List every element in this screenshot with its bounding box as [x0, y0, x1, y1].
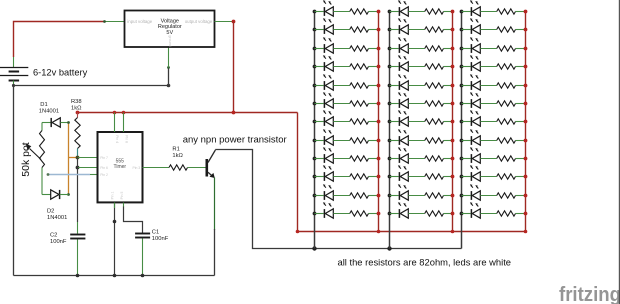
svg-text:C2: C2: [50, 232, 57, 238]
LED8 (col 1 row 8): [313, 129, 334, 145]
svg-text:100nF: 100nF: [50, 239, 67, 245]
svg-text:6-12v battery: 6-12v battery: [33, 68, 88, 78]
svg-text:all the resistors are 82ohm, l: all the resistors are 82ohm, leds are wh…: [338, 256, 512, 267]
resistor 82ohm (col 2 row 2): [408, 27, 454, 32]
wire pot wiper to 555 pin 2 (blue): [47, 173, 98, 176]
resistor 82ohm (col 3 row 2): [480, 27, 527, 32]
svg-text:50k pot: 50k pot: [20, 142, 32, 177]
wire 555 pin 5 to C1: [124, 203, 143, 234]
wire to 555 pin 6: [78, 167, 99, 169]
wire LED cathode bus column 1 (black): [314, 12, 316, 249]
wire orange to pin7 node: [69, 157, 78, 159]
svg-text:Pin 4: Pin 4: [115, 135, 119, 143]
wire regulator output down (red): [233, 22, 235, 113]
resistor 82ohm (col 3 row 1): [480, 9, 527, 14]
resistor 82ohm (col 2 row 11): [408, 193, 454, 198]
resistor 82ohm (col 3 row 8): [480, 138, 527, 143]
resistor R38 1k (vertical): [75, 113, 80, 158]
svg-text:Pin 1: Pin 1: [111, 192, 115, 200]
LED2 (col 1 row 2): [313, 18, 334, 34]
wire pin7-pin6-C2 vertical: [77, 158, 79, 223]
voltage regulator U2 input pin: [105, 21, 125, 23]
LED20 (col 2 row 8): [388, 129, 409, 145]
LED33 (col 3 row 9): [460, 147, 481, 163]
LED27 (col 3 row 3): [460, 37, 481, 53]
svg-text:Pin 8: Pin 8: [124, 135, 128, 143]
resistor 82ohm (col 1 row 7): [333, 119, 380, 124]
resistor 82ohm (col 2 row 7): [408, 119, 454, 124]
node regulator output junction: [232, 20, 236, 24]
right edge border: [618, 0, 620, 304]
svg-text:Pin 3: Pin 3: [132, 166, 140, 170]
555 pin labels (gray): [100, 135, 140, 199]
LED12 (col 1 row 12): [313, 202, 334, 218]
node red bus 2 bottom junction: [451, 230, 455, 234]
resistor 82ohm (col 1 row 8): [333, 138, 380, 143]
wire anode bus column 2 (red): [452, 12, 454, 232]
voltage regulator U2 output pin: [215, 21, 234, 23]
resistor 82ohm (col 1 row 9): [333, 156, 380, 161]
resistor 82ohm (col 3 row 3): [480, 46, 527, 51]
label C1 100nF: [152, 229, 169, 242]
wire anode bus column 3 (red): [525, 12, 527, 232]
LED9 (col 1 row 9): [313, 147, 334, 163]
label D1 1N4001: [39, 102, 59, 115]
resistor 82ohm (col 2 row 8): [408, 138, 454, 143]
wire 555 pin 4 to +5V rail: [114, 113, 116, 133]
svg-text:fritzing: fritzing: [559, 284, 620, 304]
LED36 (col 3 row 12): [460, 202, 481, 218]
potentiometer RV1 50k: [26, 123, 45, 195]
resistor 82ohm (col 1 row 10): [333, 174, 380, 179]
LED5 (col 1 row 5): [313, 74, 334, 90]
wire anode bus column 1 (red): [378, 12, 380, 232]
node collector bus junctions: [312, 246, 391, 250]
node red bus 3 bottom junction: [524, 230, 528, 234]
LED3 (col 1 row 3): [313, 37, 334, 53]
svg-text:C1: C1: [152, 229, 159, 235]
wire LED cathode bus column 3 (black): [461, 12, 463, 249]
LED28 (col 3 row 4): [460, 55, 481, 71]
resistor 82ohm (col 2 row 10): [408, 174, 454, 179]
svg-text:Timer: Timer: [114, 164, 127, 170]
svg-text:output voltage: output voltage: [185, 19, 213, 24]
LED13 (col 2 row 1): [388, 0, 409, 16]
resistor 82ohm (col 3 row 10): [480, 174, 527, 179]
svg-text:R1: R1: [172, 146, 179, 152]
LED4 (col 1 row 4): [313, 55, 334, 71]
svg-text:D1: D1: [40, 102, 47, 108]
diode D2 1N4001: [42, 190, 69, 199]
resistor 82ohm (col 3 row 5): [480, 83, 527, 88]
wire +5V feed to LED matrix (red): [298, 113, 526, 232]
LED22 (col 2 row 10): [388, 165, 409, 181]
LED19 (col 2 row 7): [388, 110, 409, 126]
svg-text:1N4001: 1N4001: [39, 109, 59, 115]
battery BAT1 6-12v: [0, 57, 28, 86]
svg-text:Pin 7: Pin 7: [100, 156, 108, 160]
LED21 (col 2 row 9): [388, 147, 409, 163]
node +5V rail junctions: [76, 111, 236, 115]
svg-text:1kΩ: 1kΩ: [172, 153, 183, 159]
node red bus 1 bottom junction: [377, 230, 381, 234]
LED34 (col 3 row 10): [460, 165, 481, 181]
resistor 82ohm (col 1 row 12): [333, 211, 380, 216]
wire 555 pin 3 output: [143, 167, 170, 169]
wire battery negative rail (left vertical): [13, 86, 15, 276]
node pin 6 junction: [76, 166, 80, 170]
wire collector to LED cathode bus: [215, 150, 461, 249]
resistor 82ohm (col 2 row 3): [408, 46, 454, 51]
wire +5V rail (red horizontal): [78, 112, 298, 114]
resistor 82ohm (col 2 row 4): [408, 64, 454, 69]
svg-text:Pin 6: Pin 6: [100, 166, 108, 170]
svg-text:input voltage: input voltage: [127, 19, 152, 24]
resistor 82ohm (col 1 row 6): [333, 101, 380, 106]
voltage regulator U2 body: [125, 11, 215, 48]
LED10 (col 1 row 10): [313, 165, 334, 181]
capacitor C1 100nF: [135, 234, 150, 276]
resistor 82ohm (col 1 row 4): [333, 64, 380, 69]
LED30 (col 3 row 6): [460, 92, 481, 108]
resistor 82ohm (col 2 row 1): [408, 9, 454, 14]
svg-text:D2: D2: [47, 209, 54, 215]
resistor 82ohm (col 2 row 5): [408, 83, 454, 88]
LED24 (col 2 row 12): [388, 202, 409, 218]
svg-text:ground: ground: [168, 35, 172, 46]
resistor 82ohm (col 1 row 1): [333, 9, 380, 14]
LED18 (col 2 row 6): [388, 92, 409, 108]
resistor 82ohm (col 3 row 11): [480, 193, 527, 198]
label R1 1k: [172, 146, 183, 159]
LED29 (col 3 row 5): [460, 74, 481, 90]
wire 555 pin 8 to +5V rail: [123, 113, 125, 133]
LED32 (col 3 row 8): [460, 129, 481, 145]
svg-text:1kΩ: 1kΩ: [71, 106, 82, 112]
node pin 7 junction: [76, 156, 80, 160]
IC U1 555 timer body: [98, 132, 143, 202]
LED14 (col 2 row 2): [388, 18, 409, 34]
resistor 82ohm (col 1 row 11): [333, 193, 380, 198]
label C2 100nF: [50, 232, 67, 245]
resistor R1 1k (horizontal): [169, 165, 206, 170]
resistor 82ohm (col 2 row 12): [408, 211, 454, 216]
wire LED cathode bus column 2 (black): [389, 12, 391, 249]
svg-text:1N4001: 1N4001: [47, 215, 67, 221]
wire to 555 pin 7: [78, 157, 99, 159]
label 555 Timer: [114, 158, 127, 170]
LED35 (col 3 row 11): [460, 184, 481, 200]
LED1 (col 1 row 1): [313, 0, 334, 16]
resistor 82ohm (col 3 row 9): [480, 156, 527, 161]
resistor 82ohm (col 2 row 6): [408, 101, 454, 106]
LED31 (col 3 row 7): [460, 110, 481, 126]
svg-text:100nF: 100nF: [152, 236, 169, 242]
label voltage regulator 5V: [158, 18, 182, 36]
LED15 (col 2 row 3): [388, 37, 409, 53]
wire diode junction vertical (orange): [67, 121, 70, 196]
voltage regulator U2 ground pin: [168, 47, 170, 68]
resistor 82ohm (col 1 row 3): [333, 46, 380, 51]
wire battery negative to regulator ground: [12, 66, 170, 87]
LED11 (col 1 row 11): [313, 184, 334, 200]
resistor 82ohm (col 3 row 4): [480, 64, 527, 69]
label D2 1N4001: [47, 209, 67, 222]
label R38 1k: [71, 99, 82, 112]
resistor 82ohm (col 2 row 9): [408, 156, 454, 161]
capacitor C2 100nF: [70, 222, 85, 276]
wire emitter to ground: [214, 178, 216, 276]
svg-text:any npn power transistor: any npn power transistor: [183, 135, 287, 146]
wire ground bus (bottom horizontal): [14, 274, 215, 278]
svg-text:Pin 2: Pin 2: [100, 173, 108, 177]
resistor 82ohm (col 1 row 5): [333, 83, 380, 88]
resistor 82ohm (col 3 row 6): [480, 101, 527, 106]
wire battery positive to regulator input (red): [14, 22, 105, 58]
LED16 (col 2 row 4): [388, 55, 409, 71]
LED6 (col 1 row 6): [313, 92, 334, 108]
resistor 82ohm (col 3 row 12): [480, 211, 527, 216]
LED25 (col 3 row 1): [460, 0, 481, 16]
resistor 82ohm (col 1 row 2): [333, 27, 380, 32]
LED23 (col 2 row 11): [388, 184, 409, 200]
LED26 (col 3 row 2): [460, 18, 481, 34]
LED7 (col 1 row 7): [313, 110, 334, 126]
diode D1 1N4001: [42, 118, 69, 127]
wire 555 pin 1 to ground: [113, 203, 117, 276]
LED17 (col 2 row 5): [388, 74, 409, 90]
resistor 82ohm (col 3 row 7): [480, 119, 527, 124]
transistor Q1 npn: [206, 150, 216, 178]
svg-text:Pin 5: Pin 5: [120, 192, 124, 200]
svg-text:R38: R38: [71, 99, 82, 105]
